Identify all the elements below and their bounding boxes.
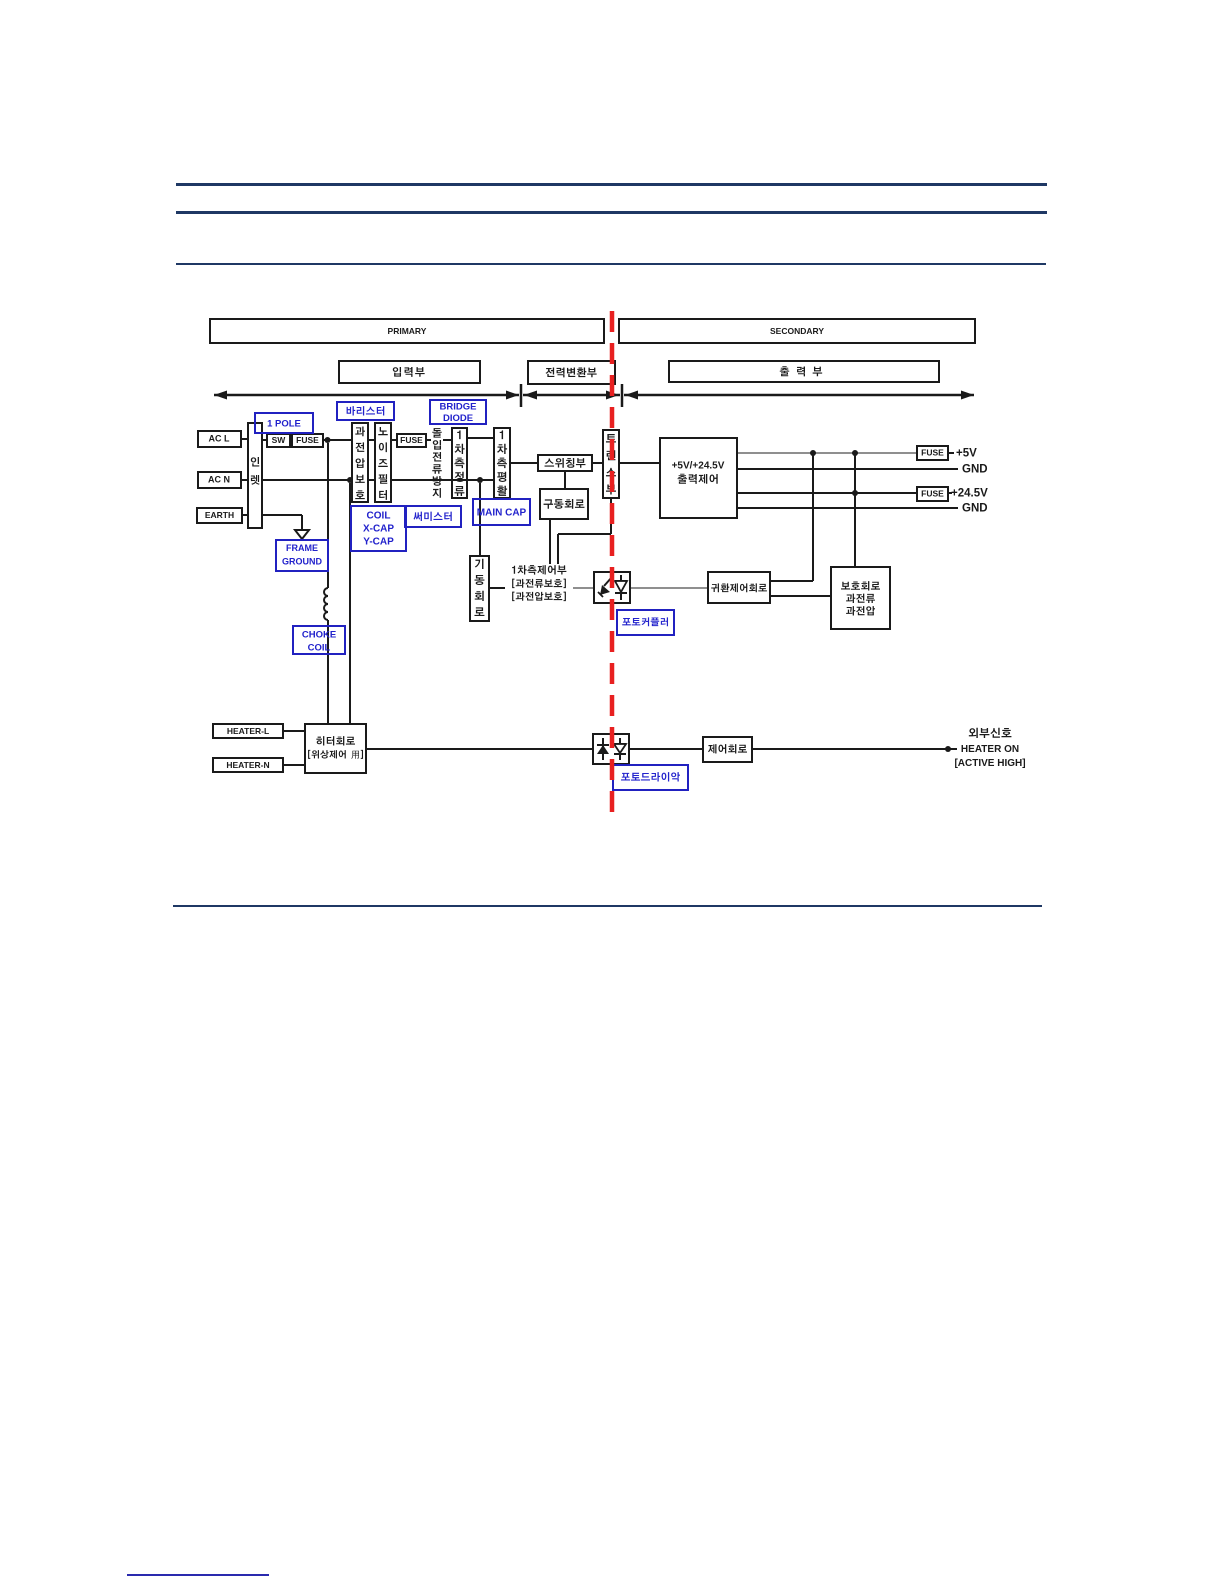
wire feedback tap	[770, 453, 813, 581]
phototriac U2	[593, 734, 629, 764]
PRIMARY section box	[210, 319, 604, 343]
wire AC N down	[349, 483, 351, 724]
svg-text:+5V: +5V	[956, 448, 977, 460]
label GND1	[962, 464, 988, 476]
svg-text:DIODE: DIODE	[443, 413, 473, 424]
label box 써미스터	[405, 506, 461, 527]
svg-text:BRIDGE: BRIDGE	[440, 401, 477, 412]
power conversion label box 전력변환부	[528, 361, 615, 384]
choke coil symbol	[324, 588, 328, 620]
terminal EARTH	[197, 508, 242, 523]
svg-text:COIL: COIL	[367, 511, 391, 522]
mid rule	[173, 905, 1042, 907]
svg-text:HEATER-N: HEATER-N	[226, 760, 269, 770]
svg-text:MAIN CAP: MAIN CAP	[477, 508, 527, 519]
wire feedback-protection	[770, 595, 831, 597]
label box 포토커플러	[617, 610, 674, 635]
label +5V	[956, 448, 977, 460]
primary wires	[241, 438, 660, 529]
wire choke line	[327, 443, 329, 724]
wire heater-L	[283, 730, 305, 732]
external signal label	[954, 728, 1025, 769]
switching box 스위칭부	[538, 455, 592, 471]
svg-text:AC L: AC L	[209, 434, 230, 444]
protection box 보호회로	[831, 567, 890, 629]
svg-text:GND: GND	[962, 464, 988, 476]
label box MAIN CAP	[473, 499, 530, 525]
wire phototriac out	[629, 748, 703, 750]
svg-text:GND: GND	[962, 503, 988, 515]
svg-text:FUSE: FUSE	[296, 435, 319, 445]
terminal AC N	[198, 472, 241, 488]
label GND2	[962, 503, 988, 515]
svg-text:SW: SW	[272, 435, 287, 445]
label +24.5V	[951, 488, 988, 500]
svg-text:1 POLE: 1 POLE	[267, 418, 301, 429]
wire +24.5V	[737, 492, 952, 494]
output section label box 출력부	[669, 361, 939, 382]
wire rect to startup	[479, 483, 481, 556]
switch box SW	[267, 434, 290, 447]
heater circuit box 히터회로	[305, 724, 366, 773]
photocoupler U1	[594, 572, 630, 603]
label box 바리스터	[337, 402, 394, 420]
wire trans bottom	[558, 498, 611, 564]
wire control out	[752, 748, 957, 750]
bottom blue rule	[127, 1574, 269, 1576]
wire GND1	[737, 468, 958, 470]
section span arrows	[214, 384, 974, 407]
wire GND2	[737, 507, 958, 509]
smoothing box 1차측평활	[494, 428, 510, 498]
svg-text:COIL: COIL	[308, 642, 331, 653]
junction dot AC N	[347, 477, 353, 483]
junction dot AC L	[325, 437, 331, 443]
wire control to photocoupler	[573, 587, 594, 589]
svg-text:FRAME: FRAME	[286, 543, 318, 553]
svg-text:FUSE: FUSE	[921, 489, 944, 499]
svg-text:AC N: AC N	[208, 475, 230, 485]
top rule 3	[176, 263, 1046, 265]
frame ground arrow	[295, 530, 309, 539]
wire heater-N	[283, 764, 305, 766]
svg-text:PRIMARY: PRIMARY	[388, 326, 427, 336]
control box 제어회로	[703, 737, 752, 762]
label box BRIDGE DIODE	[430, 400, 486, 424]
svg-text:+24.5V: +24.5V	[951, 488, 988, 500]
noise filter box 노이즈필터	[375, 423, 391, 502]
svg-text:HEATER ON: HEATER ON	[961, 744, 1019, 755]
wire startup out	[489, 587, 505, 589]
svg-text:CHOKE: CHOKE	[302, 629, 336, 640]
label box FRAME GROUND	[276, 540, 328, 571]
overvoltage box 과전압보호	[352, 423, 368, 502]
svg-text:FUSE: FUSE	[400, 435, 423, 445]
input section label box 입력부	[339, 361, 480, 383]
SECONDARY section box	[619, 319, 975, 343]
label box CHOKE COIL	[293, 626, 345, 654]
top rule 1	[176, 183, 1047, 186]
startup box 기동회로	[470, 556, 489, 621]
svg-text:Y-CAP: Y-CAP	[363, 537, 394, 548]
heater box HEATER-N	[213, 758, 283, 772]
fuse box FUSE3	[917, 446, 948, 460]
terminal AC L	[198, 431, 241, 447]
junction dots output	[810, 450, 858, 496]
primary control label 1차측제어부	[512, 565, 566, 601]
label box 1 POLE	[255, 413, 313, 433]
label box COIL X-CAP Y-CAP	[351, 506, 406, 551]
label box 포토드라이악	[613, 765, 688, 790]
svg-text:X-CAP: X-CAP	[363, 524, 394, 535]
junction dot heater on	[945, 746, 951, 752]
inlet box 인렛	[248, 423, 262, 528]
junction dot rectified	[477, 477, 483, 483]
primary/secondary divider (red dashed)	[610, 311, 615, 820]
wire switching-drive	[564, 471, 566, 489]
fuse box FUSE4	[917, 487, 948, 501]
svg-text:EARTH: EARTH	[205, 510, 234, 520]
output control box 출력제어	[660, 438, 737, 518]
feedback box 귀환제어회로	[708, 572, 770, 603]
svg-text:FUSE: FUSE	[921, 448, 944, 458]
heater box HEATER-L	[213, 724, 283, 738]
svg-text:+5V/+24.5V: +5V/+24.5V	[672, 461, 725, 472]
svg-text:[ACTIVE HIGH]: [ACTIVE HIGH]	[954, 758, 1025, 769]
svg-text:HEATER-L: HEATER-L	[227, 726, 269, 736]
top rule 2	[176, 211, 1047, 214]
wire heater out	[366, 748, 593, 750]
transformer box 트랜스부	[603, 430, 619, 498]
wire +5V	[737, 452, 954, 454]
wire photocoupler to feedback	[630, 587, 708, 589]
svg-text:SECONDARY: SECONDARY	[770, 326, 824, 336]
drive box 구동회로	[540, 489, 588, 519]
fuse box FUSE2	[397, 434, 426, 447]
rectifier box 1차측정류	[452, 428, 467, 498]
wire drive down	[549, 519, 551, 564]
inrush label 돌입전류방지	[432, 428, 442, 498]
wire protection tap	[854, 453, 856, 567]
fuse box FUSE1	[292, 434, 323, 447]
svg-text:GROUND: GROUND	[282, 557, 322, 567]
